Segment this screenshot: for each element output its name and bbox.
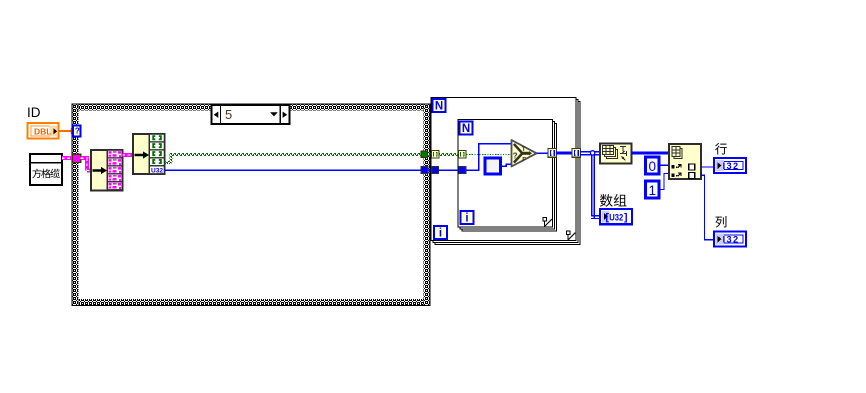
wire cluster to tunnel (62, 156, 73, 160)
wire bool scalar (green dotted) to select s (467, 153, 512, 155)
wire 1 to index (659, 174, 669, 190)
tunnel [] outer loop left (green) (432, 151, 439, 158)
coercion dot ? on loop border (73, 125, 81, 136)
svg-text:i: i (465, 213, 468, 225)
svg-text:ID: ID (27, 105, 41, 120)
constant 1 (646, 181, 660, 198)
while loop border (72, 104, 430, 306)
indicator array U32 (600, 209, 632, 224)
tunnel [] inner loop right (548, 149, 557, 158)
wire junction (590, 151, 594, 155)
for loop inner (458, 120, 557, 232)
i badge outer for loop (434, 226, 447, 239)
svg-text:N: N (435, 101, 443, 113)
wire cluster out to unbundle (123, 153, 134, 157)
tunnel [] inner loop left (green) (459, 151, 466, 158)
numeric constant (blank blue square) (485, 158, 501, 174)
wire select out (537, 153, 549, 155)
wire col out (701, 175, 714, 240)
numeric control DBL (ID) (28, 123, 59, 139)
label 列 (715, 216, 726, 228)
svg-text:i: i (439, 228, 442, 240)
svg-text:N: N (462, 123, 470, 135)
node index-array of clusters (91, 150, 123, 191)
i badge inner for loop (461, 211, 474, 224)
wire blue between tunnels (428, 169, 431, 170)
svg-text:F: F (522, 157, 526, 164)
svg-text:I32: I32 (723, 235, 740, 245)
for loop outer (431, 98, 580, 245)
svg-text:5: 5 (225, 107, 232, 122)
svg-text:U32: U32 (609, 212, 623, 223)
indicator I32 row (714, 158, 746, 173)
label 行 (715, 143, 727, 155)
wire DBL to coercion dot (59, 130, 72, 132)
svg-text:DBL: DBL (34, 127, 51, 137)
wire zigzag between tunnels (428, 153, 432, 156)
ring control 5 (212, 105, 290, 124)
indicator I32 col (714, 232, 746, 247)
tunnel (cluster, while loop left) (73, 154, 81, 162)
tunnel [] outer loop right (572, 149, 581, 158)
text 方格缆 (32, 169, 41, 178)
svg-text:1: 1 (649, 183, 657, 198)
select function U1 (512, 140, 537, 167)
label 数组 (600, 194, 613, 207)
wire 0 to index (659, 165, 669, 166)
wire 1D array to index array (632, 151, 670, 154)
wire 2D array (double blue) (580, 151, 600, 219)
svg-text:]: ] (624, 212, 628, 224)
tunnel green (bool array out) (421, 151, 428, 158)
svg-text:?: ? (513, 151, 518, 160)
constant 0 (646, 157, 660, 174)
N badge outer for loop (433, 99, 446, 112)
wire constant to select f (502, 164, 512, 166)
wire tunnel to unbundle node (81, 156, 92, 172)
wire 1D array (thick blue) (556, 152, 573, 155)
node unbundle (4 bool arrays + U32) (133, 134, 165, 174)
tunnel blue inner loop left (459, 167, 466, 174)
svg-text:I32: I32 (723, 161, 740, 171)
svg-text:?: ? (75, 127, 80, 136)
cluster constant 方格缆 (30, 154, 62, 185)
wire bool array (green zigzag) (165, 153, 422, 164)
svg-text:T: T (522, 146, 526, 153)
wire U32 (blue) (165, 169, 422, 170)
svg-text:0: 0 (649, 159, 657, 174)
tunnel blue (U32 out) (421, 167, 428, 174)
tunnel blue outer loop left (432, 167, 439, 174)
wire blue i32 from tunnel up to select t (466, 144, 511, 171)
wire row out (701, 166, 714, 167)
N badge inner for loop (460, 122, 473, 135)
node index array (row/col) (669, 144, 701, 179)
node reshape array (600, 144, 632, 164)
